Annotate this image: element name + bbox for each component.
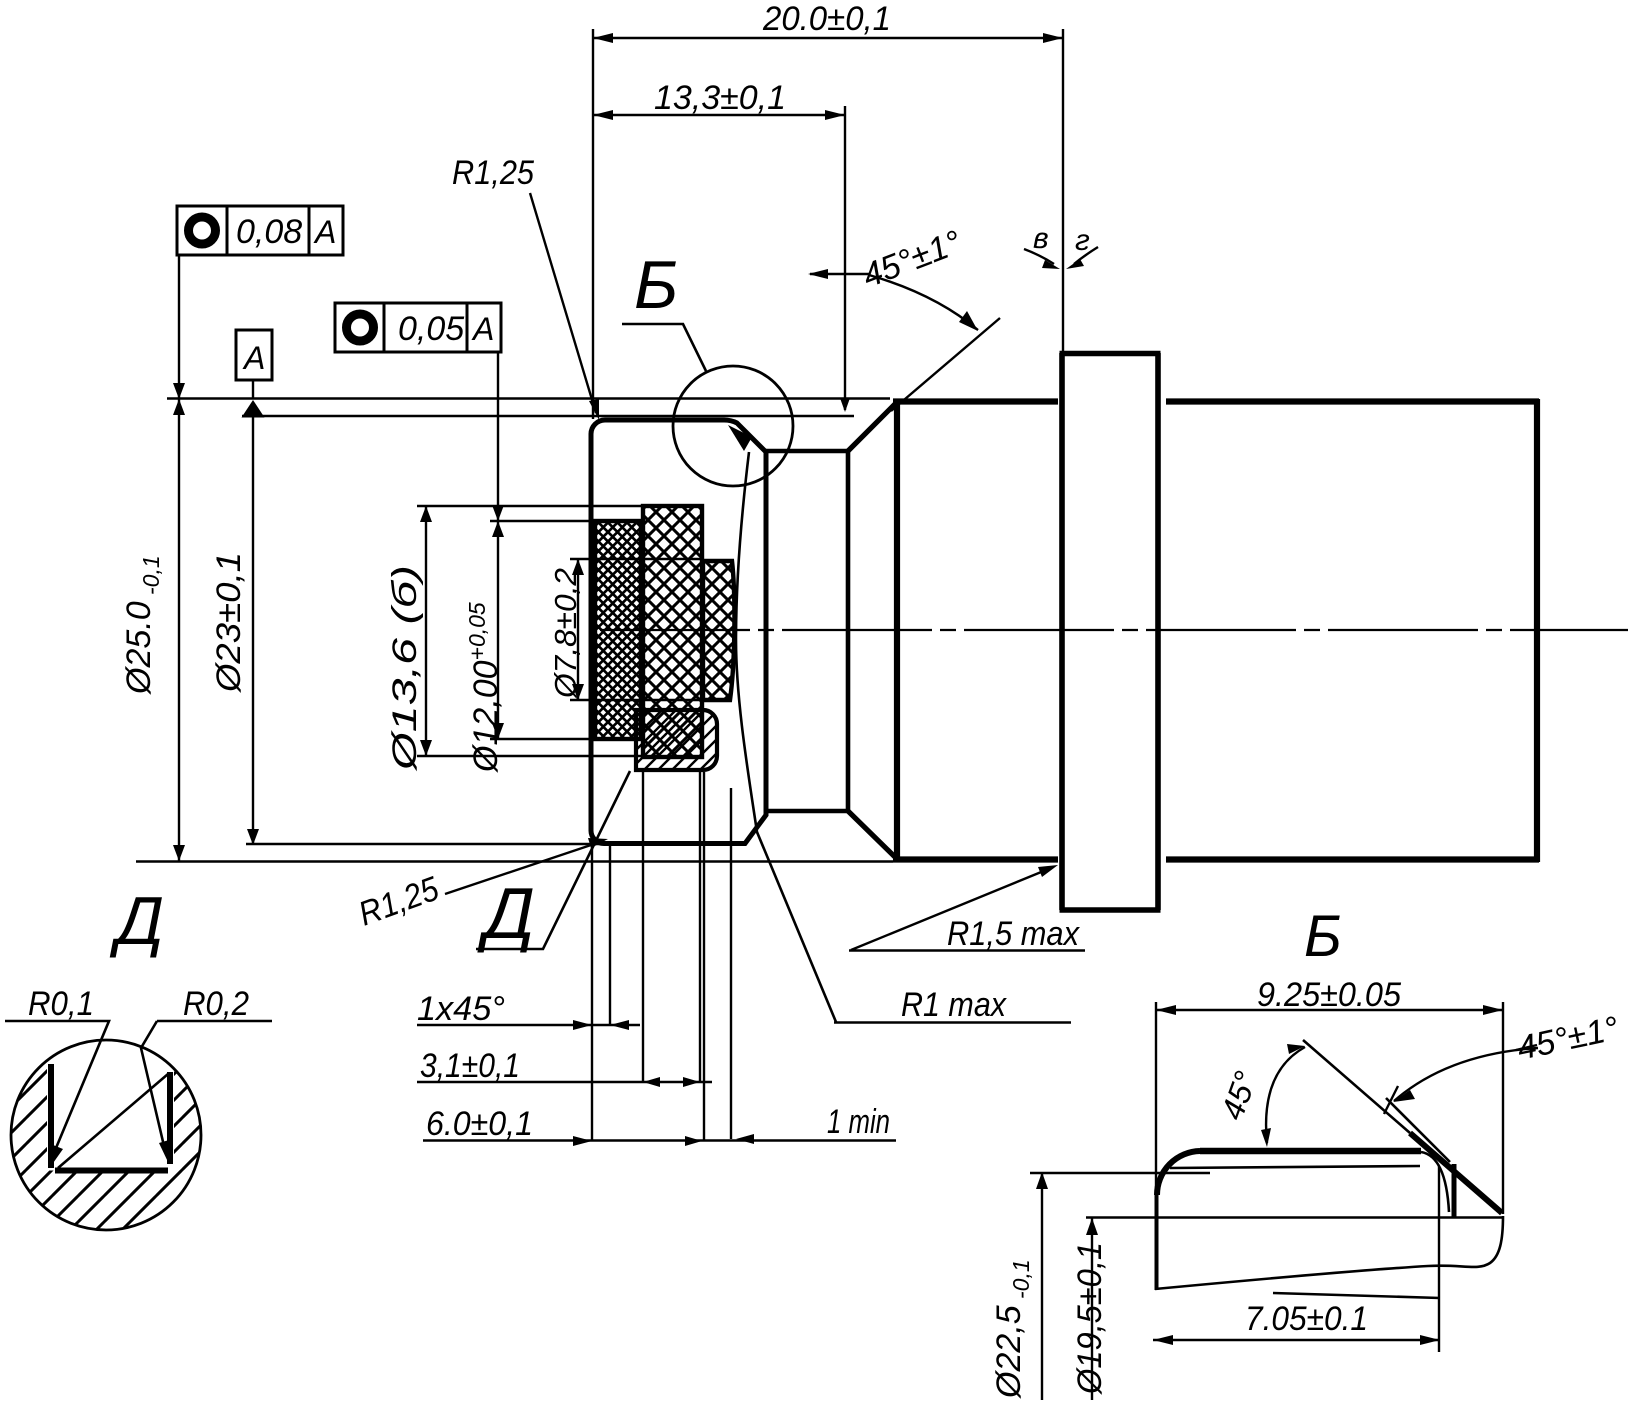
dimension 9.25±0.05 xyxy=(1156,1002,1503,1290)
svg-text:Д: Д xyxy=(109,883,164,959)
wire extension phi25 bottom xyxy=(136,860,893,862)
node groove left wall xyxy=(48,1064,54,1168)
svg-text:в: в xyxy=(1033,222,1049,255)
dimension 45°±1° main cone xyxy=(810,273,869,275)
svg-text:A: A xyxy=(242,340,265,376)
svg-text:R1,25: R1,25 xyxy=(452,154,534,192)
svg-text:г: г xyxy=(1075,224,1090,257)
dimension phi22,5 xyxy=(1030,1172,1210,1400)
svg-text:13,3±0,1: 13,3±0,1 xyxy=(654,79,786,117)
leader R1,5 max xyxy=(849,868,1085,951)
svg-text:A: A xyxy=(313,214,336,250)
dimension 45° inner xyxy=(1266,1047,1305,1143)
leader R1 max underline xyxy=(834,1021,1071,1023)
node Б profile right corner arc xyxy=(1421,1152,1449,1212)
node groove bottom xyxy=(55,1168,168,1174)
svg-text:R1 max: R1 max xyxy=(901,986,1007,1024)
wire Б bottom lower line xyxy=(1273,1293,1440,1298)
feature control frame concentricity 0,05 A xyxy=(335,303,501,352)
svg-text:Д: Д xyxy=(477,874,535,954)
leader R0,1 xyxy=(5,1021,109,1148)
wire extension left face vertical xyxy=(592,29,594,419)
dimension 1x45° xyxy=(417,1024,640,1026)
dimension 3,1±0,1 xyxy=(417,1081,712,1083)
wire centerline main axis xyxy=(600,629,1628,631)
wire leader Б label xyxy=(622,324,706,371)
svg-text:20.0±0,1: 20.0±0,1 xyxy=(762,0,891,38)
dimension 45°±1° detail xyxy=(1394,1048,1538,1101)
node Б profile top edge xyxy=(1200,1148,1421,1154)
node neck groove lines xyxy=(766,451,848,811)
dimension phi19,5±0,1 xyxy=(1091,1218,1093,1400)
dimension 20.0±0,1 xyxy=(593,37,1063,39)
svg-text:R0,2: R0,2 xyxy=(183,985,249,1023)
svg-text:0,08: 0,08 xyxy=(236,213,302,251)
leader R1 max long curve with arrow xyxy=(736,452,836,1022)
wire extension lines below cap xyxy=(592,772,731,1141)
wire Б chamfer extension thin xyxy=(1303,1040,1410,1133)
wire extension step face vertical xyxy=(844,106,846,410)
wire Б bottom break line xyxy=(1155,1216,1503,1289)
svg-text:A: A xyxy=(471,311,494,347)
seal strip B hatched xyxy=(643,506,702,757)
svg-text:Ø13,6 (б): Ø13,6 (б) xyxy=(386,565,424,771)
flange ring xyxy=(1060,353,1161,910)
node detail Д circle xyxy=(11,1040,201,1230)
svg-text:Ø23±0,1: Ø23±0,1 xyxy=(210,552,248,693)
seal groove insert D rounded xyxy=(636,710,717,770)
wire extension flange face vertical xyxy=(1062,29,1064,352)
leader R1,25 lower xyxy=(445,842,600,894)
wire extension phi25 top xyxy=(167,397,890,399)
svg-text:7.05±0.1: 7.05±0.1 xyxy=(1245,1300,1368,1338)
wire extension phi23 bottom xyxy=(246,843,606,845)
svg-text:Ø7,8±0,2: Ø7,8±0,2 xyxy=(548,568,583,699)
seal strip A hatched xyxy=(595,521,641,739)
node Б profile left edge xyxy=(1155,1195,1159,1290)
leader R0,2 xyxy=(141,1021,272,1146)
node detail circle Б xyxy=(673,366,793,486)
dimension 6.0±0,1 and 1 min xyxy=(423,1139,896,1141)
wire extension phi23 top xyxy=(242,415,854,417)
datum A flag xyxy=(236,330,272,380)
wire leader FCF1 to phi25 xyxy=(178,255,180,390)
svg-text:Б: Б xyxy=(634,247,678,323)
dimension phi12,00+0,05 xyxy=(490,351,595,739)
svg-text:1 min: 1 min xyxy=(827,1103,890,1141)
leader R1,25 upper xyxy=(530,193,596,413)
wire Б chamfer second line xyxy=(1386,1098,1450,1162)
dimension phi13,6 (б) xyxy=(417,506,643,756)
seal strip C hatched xyxy=(703,561,734,700)
svg-text:Б: Б xyxy=(1304,904,1342,969)
wire groove inner diagonal xyxy=(58,1074,168,1168)
feature control frame concentricity 0,08 A xyxy=(177,206,343,255)
svg-text:Ø19,5±0,1: Ø19,5±0,1 xyxy=(1071,1242,1109,1395)
dimension phi23±0,1 xyxy=(252,417,254,845)
svg-text:1x45°: 1x45° xyxy=(417,990,505,1028)
dimension phi7,8±0,2 xyxy=(570,559,703,700)
svg-text:R0,1: R0,1 xyxy=(28,985,94,1023)
svg-text:9.25±0.05: 9.25±0.05 xyxy=(1257,976,1401,1014)
svg-text:0,05: 0,05 xyxy=(398,310,464,348)
cap body outline (Ø23 nut) xyxy=(591,420,766,844)
node groove right wall xyxy=(167,1072,173,1164)
dimension 7.05±0.1 xyxy=(1153,1166,1440,1352)
wire Б profile inner line xyxy=(1170,1166,1420,1168)
svg-text:R1,5 max: R1,5 max xyxy=(947,915,1080,953)
node Б chamfer edge thick xyxy=(1410,1133,1502,1213)
svg-text:3,1±0,1: 3,1±0,1 xyxy=(420,1047,520,1085)
svg-text:6.0±0,1: 6.0±0,1 xyxy=(426,1105,533,1143)
dimension 13,3±0,1 xyxy=(593,114,845,116)
main body outline (Ø25 shaft) xyxy=(893,399,1539,862)
node Б step face xyxy=(1452,1164,1457,1218)
wire Б level line phi19,5 xyxy=(1086,1216,1502,1219)
node cone 45 deg xyxy=(848,402,897,859)
dimension phi25.0 xyxy=(178,385,180,861)
node Б profile left corner arc xyxy=(1157,1151,1200,1195)
